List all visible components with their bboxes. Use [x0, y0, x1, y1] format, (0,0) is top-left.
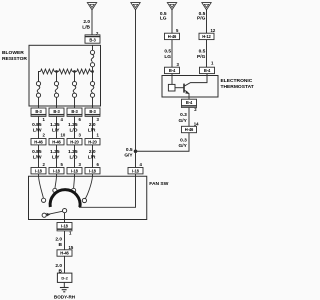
wire I-18 to H-46 pin 15: [64, 231, 66, 250]
wire label 2.0 L/R (lower, column 4): [88, 149, 96, 161]
svg-text:G/Y: G/Y: [124, 153, 133, 159]
wire H-20 to fan switch I-18 column 4: [92, 145, 94, 168]
fan switch wiper arm with arrowhead: [42, 209, 67, 218]
connector B-3 (blower resistor feed): [85, 35, 100, 43]
svg-text:L/R: L/R: [88, 155, 96, 161]
svg-text:B-4: B-4: [186, 100, 193, 105]
heater element leg column 4 (HI): [90, 72, 94, 107]
svg-text:0.3: 0.3: [180, 112, 187, 118]
svg-text:0.85: 0.85: [32, 149, 42, 155]
svg-text:L/W: L/W: [33, 128, 42, 134]
svg-text:2.0: 2.0: [55, 236, 62, 242]
svg-text:B-3: B-3: [89, 38, 96, 43]
connector B-3 (output column 1): [31, 108, 46, 116]
wire B-3 to H connector column 4: [92, 117, 94, 139]
connector H-46 (column 1): [31, 139, 46, 145]
wire thermistor to transistor base: [175, 87, 184, 89]
wire D-2 to chassis ground: [63, 282, 65, 287]
connector H-20 (column 3): [67, 139, 82, 145]
svg-text:0.5: 0.5: [126, 147, 133, 153]
connector I-18 (fan switch ground output): [57, 223, 72, 231]
fan switch contact 1 (LO) lead and contact: [39, 176, 46, 202]
junction of thermostat output with triangle-2 wire: [134, 149, 138, 153]
wire from arc to right I-18 feed: [79, 174, 136, 207]
ground symbol (chassis): [60, 288, 69, 292]
svg-text:0.85: 0.85: [32, 122, 42, 128]
connector H-20 (column 4): [85, 139, 100, 145]
svg-text:B-3: B-3: [71, 109, 78, 114]
connector I-18 (fan switch, column 1): [31, 168, 46, 174]
svg-text:0.5: 0.5: [199, 48, 206, 54]
wire stub R3 to feed node: [91, 71, 93, 73]
wire blower resistor to B-3 column 2: [56, 106, 58, 108]
resistor R1 (blower resistor section 1): [41, 69, 55, 74]
svg-text:D-2: D-2: [61, 276, 68, 281]
wire blower resistor to B-3 column 1: [38, 106, 40, 108]
wire H-46 to fan switch I-18 column 2: [56, 145, 58, 168]
svg-text:BODY-RH: BODY-RH: [54, 295, 76, 300]
connector I-18 (fan switch, column 2): [49, 168, 64, 174]
svg-text:H-12: H-12: [202, 34, 211, 39]
svg-text:H-46: H-46: [52, 139, 61, 144]
svg-text:12: 12: [211, 28, 216, 33]
svg-text:H-20: H-20: [70, 139, 79, 144]
wire stub I-18 column 3 into fan switch: [74, 174, 76, 176]
svg-text:THERMOSTAT: THERMOSTAT: [221, 84, 254, 90]
svg-text:L/B: L/B: [82, 25, 90, 31]
wire label 0.5 LG (lower): [164, 48, 171, 60]
ground point box D-2: [57, 273, 72, 282]
connector B-4 (thermostat left, pin 3): [165, 67, 180, 73]
wire label 1.25 L/Y (upper, column 2): [50, 122, 60, 134]
svg-text:B-3: B-3: [35, 109, 42, 114]
transistor Q1 collector wire to B-4 pin 1: [185, 74, 207, 86]
svg-text:2.0: 2.0: [89, 122, 96, 128]
svg-text:B-4: B-4: [204, 68, 211, 73]
junction node tap MH: [73, 70, 76, 73]
wire label 0.3 G/Y (upper): [179, 112, 188, 124]
wire chain left drop at first tap: [39, 72, 41, 82]
label BLOWER RESISTOR: [2, 50, 27, 62]
svg-text:B-4: B-4: [169, 68, 176, 73]
fan switch component box: [29, 176, 147, 219]
wire triangle 3 to connector H-46: [171, 10, 173, 33]
wire blower resistor to B-3 column 3: [74, 106, 76, 108]
connector H-46 (thermostat column): [182, 126, 197, 132]
wire stub I-18 column 4 into fan switch: [92, 174, 94, 176]
svg-text:L/O: L/O: [70, 155, 78, 161]
svg-text:B-3: B-3: [89, 109, 96, 114]
svg-text:H-20: H-20: [88, 139, 97, 144]
fan switch contact 2 (ML) lead and contact: [53, 176, 57, 192]
connector I-18 (fan switch, right feed): [128, 168, 143, 174]
svg-text:B: B: [59, 242, 63, 248]
connector H-46 (column 2): [49, 139, 64, 145]
svg-text:I-18: I-18: [53, 168, 60, 173]
wire label 1.25 L/O (upper, column 3): [68, 122, 78, 134]
svg-text:B-3: B-3: [53, 109, 60, 114]
heater element leg column 1 (LO): [36, 72, 40, 107]
wire H-20 to fan switch I-18 column 3: [74, 145, 76, 168]
fan switch contact 3 (MH) lead and contact: [72, 176, 76, 192]
wire label 0.5 P/G (upper): [197, 11, 206, 22]
transistor Q1 emitter with arrowhead: [185, 90, 190, 99]
wire B-4 pin 2 to H-46 pin 14: [188, 107, 190, 126]
svg-text:H-46: H-46: [185, 127, 194, 132]
svg-text:I-18: I-18: [61, 223, 68, 228]
svg-text:I-18: I-18: [132, 168, 139, 173]
wire triangle 4 to connector H-12: [206, 10, 208, 33]
wire label 1.25 L/O (lower, column 3): [68, 149, 78, 161]
svg-text:10: 10: [61, 133, 66, 138]
svg-text:15: 15: [69, 245, 74, 250]
svg-text:2.0: 2.0: [89, 149, 96, 155]
svg-text:LG: LG: [164, 54, 171, 60]
wire B-3 to H connector column 1: [38, 117, 40, 139]
wire wiper pivot to bottom I-18: [64, 213, 66, 223]
connector H-46 (middle column): [165, 33, 180, 39]
heater element leg (feed, top) inside blower resistor: [90, 45, 94, 71]
off-page reference triangle 1 (to power supply): [87, 3, 96, 10]
wire label 0.5 G/Y (at junction): [124, 147, 133, 159]
connector B-3 (output column 2): [49, 108, 64, 116]
off-page reference triangle 3 (to A/C control): [167, 3, 176, 10]
connector H-46 (ground column): [57, 250, 72, 256]
svg-text:0.5: 0.5: [164, 48, 171, 54]
connector B-4 (thermostat right, pin 1): [200, 67, 215, 73]
wire label 0.3 G/Y (lower): [179, 138, 188, 150]
svg-text:L/O: L/O: [70, 128, 78, 134]
svg-text:1.25: 1.25: [50, 122, 60, 128]
svg-text:G/Y: G/Y: [179, 143, 188, 149]
wire label 0.85 L/W (upper, column 1): [32, 122, 42, 134]
wire H-46 to connector B-4 pin 3: [171, 40, 173, 68]
transistor Q1 (NPN) base bar: [183, 84, 185, 93]
wire label 0.5 P/G (lower): [197, 48, 206, 60]
label ELECTRONIC THERMOSTAT: [221, 78, 254, 90]
svg-text:I-18: I-18: [35, 168, 42, 173]
wire stub R2 to node: [72, 71, 76, 73]
electronic thermostat component box: [162, 76, 218, 98]
wire B-3 to H connector column 3: [74, 117, 76, 139]
connector B-3 (output column 3): [67, 108, 82, 116]
svg-text:G/Y: G/Y: [179, 118, 188, 124]
connector B-4 (thermostat output, pin 2): [182, 99, 197, 107]
fan switch contact 4 (HI) lead and contact: [82, 176, 92, 202]
wire stub I-18 column 1 into fan switch: [38, 174, 40, 176]
wire stub R1 to node: [54, 71, 58, 73]
svg-text:H-46: H-46: [34, 139, 43, 144]
svg-text:1.25: 1.25: [50, 149, 60, 155]
svg-text:P/G: P/G: [197, 16, 206, 22]
wire H-12 to connector B-4 pin 1: [206, 40, 208, 68]
svg-text:14: 14: [194, 121, 199, 126]
resistor R2 (blower resistor section 2): [59, 69, 73, 74]
svg-text:L/R: L/R: [88, 128, 96, 134]
svg-text:FAN SW: FAN SW: [149, 181, 168, 187]
thermistor sensor element: [168, 84, 175, 91]
svg-text:ELECTRONIC: ELECTRONIC: [221, 78, 253, 84]
svg-text:L/W: L/W: [33, 155, 42, 161]
svg-text:BLOWER: BLOWER: [2, 50, 24, 56]
off-page reference triangle 4 (to A/C compressor circuit): [202, 3, 211, 10]
svg-text:H-46: H-46: [168, 34, 177, 39]
wire label 2.0 B (lower): [55, 263, 62, 275]
wire label 0.5 LG (upper): [160, 11, 167, 22]
connector B-3 (output column 4): [85, 108, 100, 116]
wire H-46 to fan switch I-18 column 1: [38, 145, 40, 168]
svg-text:2.0: 2.0: [83, 19, 90, 25]
junction node tap ML: [55, 70, 58, 73]
connector H-12 (right column): [199, 33, 214, 39]
svg-text:RESISTOR: RESISTOR: [2, 56, 27, 62]
off-page reference triangle 2 (to heater relay): [131, 3, 140, 10]
connector I-18 (fan switch, column 4): [85, 168, 100, 174]
wire label 2.0 L/B: [82, 19, 90, 31]
svg-text:H-46: H-46: [60, 251, 69, 256]
svg-text:1.25: 1.25: [68, 149, 78, 155]
wire from triangle 1 to connector B-3: [91, 10, 93, 35]
svg-text:I-18: I-18: [71, 168, 78, 173]
wire blower resistor to B-3 column 4: [92, 106, 94, 108]
wire label 2.0 B (upper): [55, 236, 62, 248]
wire label 2.0 L/R (upper, column 4): [88, 122, 96, 134]
fan switch rotary wiper track arc: [50, 190, 80, 208]
wire B-4 pin 3 to thermistor: [171, 74, 173, 85]
svg-text:P/G: P/G: [197, 54, 206, 60]
svg-text:0.3: 0.3: [180, 138, 187, 144]
svg-text:L/Y: L/Y: [52, 155, 60, 161]
blower resistor component box: [29, 45, 101, 106]
wire label 1.25 L/Y (lower, column 2): [50, 149, 60, 161]
wire label 0.85 L/W (lower, column 1): [32, 149, 42, 161]
svg-text:LG: LG: [160, 16, 167, 22]
heater element leg column 2 (ML): [54, 72, 58, 107]
wire H-46 pin 14 down to junction level: [136, 133, 190, 152]
resistor R3 (blower resistor section 3): [77, 69, 91, 74]
svg-text:L/Y: L/Y: [52, 128, 60, 134]
connector I-18 (fan switch, column 3): [67, 168, 82, 174]
svg-text:2.0: 2.0: [55, 263, 62, 269]
junction node feed: [91, 70, 94, 73]
svg-text:I-18: I-18: [89, 168, 96, 173]
heater element leg column 3 (MH): [72, 72, 76, 107]
wire stub I-18 column 2 into fan switch: [56, 174, 58, 176]
wire B-3 to H connector column 2: [56, 117, 58, 139]
wire from triangle 2 down right side: [135, 10, 137, 168]
wire H-46 pin 15 to ground point D-2: [64, 256, 66, 273]
svg-text:1.25: 1.25: [68, 122, 78, 128]
